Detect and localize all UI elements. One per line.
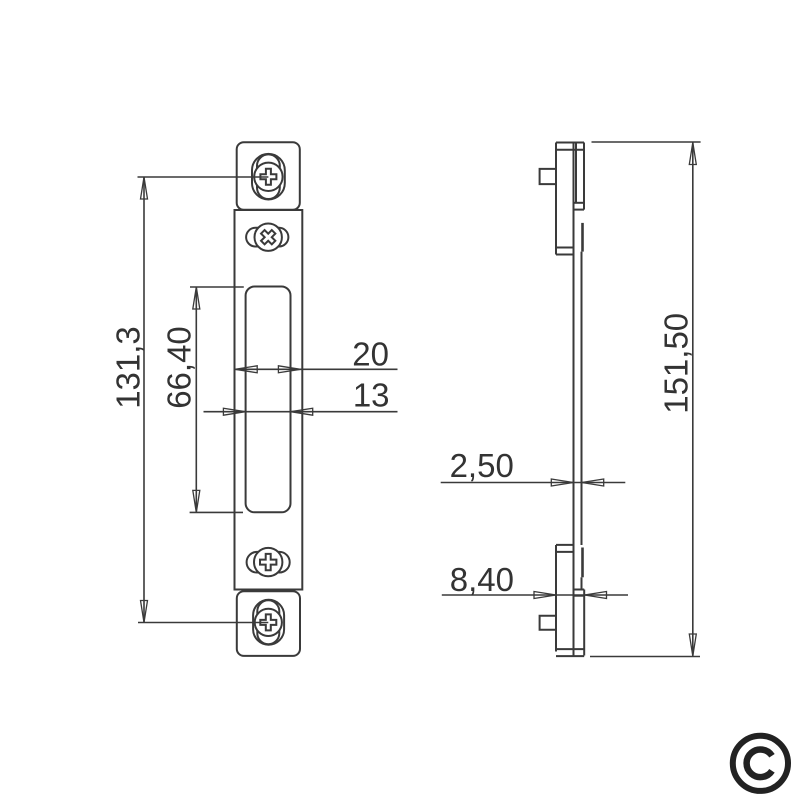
svg-text:8,40: 8,40: [450, 561, 514, 598]
svg-text:66,40: 66,40: [161, 326, 198, 409]
svg-text:13: 13: [353, 376, 390, 413]
svg-text:131,3: 131,3: [109, 326, 146, 409]
svg-text:2,50: 2,50: [450, 447, 514, 484]
svg-text:20: 20: [352, 336, 389, 373]
svg-text:151,50: 151,50: [658, 313, 695, 414]
